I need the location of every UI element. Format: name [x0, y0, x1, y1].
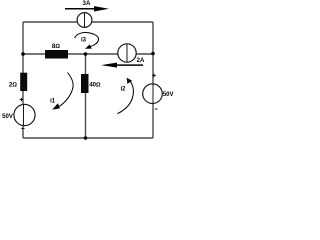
svg-text:i2: i2 [120, 87, 126, 93]
svg-text:2Ω: 2Ω [9, 82, 17, 89]
junction node at left of 8ohm wire [21, 52, 25, 56]
resistor 40ohm [81, 74, 89, 93]
svg-text:i3: i3 [81, 38, 87, 44]
wire left vertical branch [22, 22, 24, 138]
mesh current arrow i1 [52, 73, 73, 110]
wire middle vertical (40ohm branch) [85, 54, 87, 138]
junction node middle of 8ohm wire [84, 52, 88, 56]
junction node right of 2A wire [151, 52, 155, 56]
svg-text:8Ω: 8Ω [52, 43, 60, 50]
wire top from node A to 3A source and to right top corner [23, 21, 153, 23]
2A direction arrow [101, 63, 143, 68]
wire middle horizontal (8ohm / 2A branch) [23, 53, 153, 55]
label plus left [20, 98, 24, 102]
junction node bottom middle [84, 136, 88, 140]
label plus right [152, 74, 156, 78]
current source 2A [118, 44, 136, 62]
label minus right [155, 108, 158, 110]
svg-text:50V: 50V [163, 92, 174, 98]
voltage source 50V right [143, 84, 163, 104]
wire bottom [23, 137, 153, 139]
svg-text:40Ω: 40Ω [89, 82, 101, 88]
wire right vertical branch [152, 22, 154, 138]
mesh current arrow i3 [75, 33, 99, 49]
svg-text:2A: 2A [137, 58, 145, 64]
current source 3A (top) [77, 13, 92, 28]
svg-text:3A: 3A [83, 0, 91, 7]
resistor 8ohm [45, 50, 68, 59]
svg-text:i1: i1 [50, 99, 56, 105]
resistor 2ohm [20, 73, 27, 91]
label minus left [21, 127, 24, 129]
svg-text:50V: 50V [2, 114, 13, 120]
mesh current arrow i2 [117, 78, 133, 114]
3A direction arrow [65, 6, 109, 11]
voltage source 50V left [14, 104, 35, 125]
